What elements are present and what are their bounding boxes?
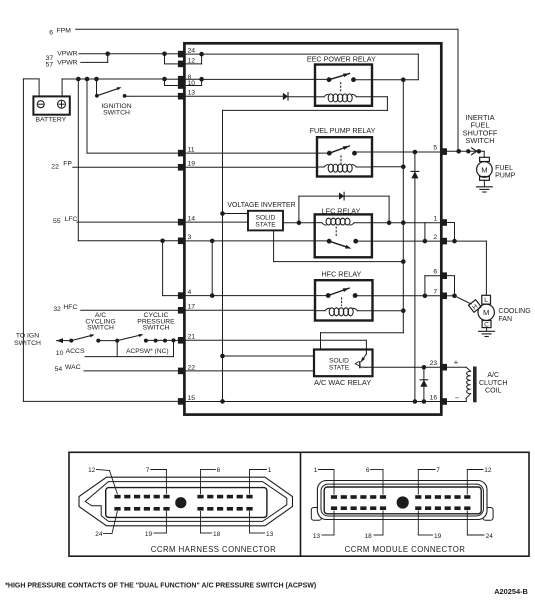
svg-text:1: 1 <box>314 467 318 474</box>
svg-text:M: M <box>481 165 487 174</box>
svg-text:4: 4 <box>188 289 192 296</box>
svg-text:HFC RELAY: HFC RELAY <box>321 270 361 279</box>
svg-text:M: M <box>483 308 489 317</box>
svg-text:−: − <box>455 393 460 402</box>
svg-text:VOLTAGE INVERTER: VOLTAGE INVERTER <box>227 202 295 209</box>
svg-text:23: 23 <box>430 360 438 367</box>
svg-text:VPWR: VPWR <box>57 59 77 66</box>
svg-text:ACPSW* (NC): ACPSW* (NC) <box>126 348 169 355</box>
svg-text:11: 11 <box>188 147 195 154</box>
svg-text:18: 18 <box>365 533 373 540</box>
svg-text:SWITCH: SWITCH <box>143 325 170 332</box>
svg-text:FPM: FPM <box>57 28 72 35</box>
svg-text:A/C WAC RELAY: A/C WAC RELAY <box>314 378 371 387</box>
svg-text:55: 55 <box>53 218 61 225</box>
svg-text:SWITCH: SWITCH <box>14 340 41 347</box>
svg-text:14: 14 <box>188 216 196 223</box>
svg-text:22: 22 <box>188 364 196 371</box>
svg-text:BATTERY: BATTERY <box>35 117 66 124</box>
svg-text:12: 12 <box>484 467 492 474</box>
svg-text:17: 17 <box>188 304 196 311</box>
svg-text:FUEL PUMP RELAY: FUEL PUMP RELAY <box>310 126 376 135</box>
svg-text:3: 3 <box>188 234 192 241</box>
svg-text:A20254-B: A20254-B <box>494 587 528 596</box>
svg-text:6: 6 <box>217 467 221 474</box>
svg-text:24: 24 <box>486 533 494 540</box>
svg-text:18: 18 <box>213 531 221 538</box>
svg-text:54: 54 <box>55 366 63 373</box>
svg-text:COOLING: COOLING <box>498 308 530 315</box>
svg-text:6: 6 <box>433 269 437 276</box>
svg-text:A/C: A/C <box>487 372 499 379</box>
svg-text:5: 5 <box>433 144 437 151</box>
svg-text:1: 1 <box>433 215 437 222</box>
svg-text:CCRM HARNESS CONNECTOR: CCRM HARNESS CONNECTOR <box>151 545 276 554</box>
svg-text:WAC: WAC <box>65 364 81 371</box>
svg-text:SOLID: SOLID <box>329 358 349 365</box>
svg-text:EEC POWER RELAY: EEC POWER RELAY <box>307 55 376 64</box>
svg-text:STATE: STATE <box>255 222 276 229</box>
svg-text:6: 6 <box>366 467 370 474</box>
svg-text:13: 13 <box>313 533 321 540</box>
svg-text:24: 24 <box>188 48 196 55</box>
svg-text:STATE: STATE <box>329 365 350 372</box>
svg-text:SWITCH: SWITCH <box>87 325 114 332</box>
svg-text:19: 19 <box>145 531 153 538</box>
svg-text:21: 21 <box>188 334 196 341</box>
svg-text:10: 10 <box>188 80 196 87</box>
svg-text:CCRM MODULE CONNECTOR: CCRM MODULE CONNECTOR <box>345 545 466 554</box>
svg-text:32: 32 <box>53 306 61 313</box>
svg-text:24: 24 <box>95 531 103 538</box>
svg-text:TO IGN: TO IGN <box>16 333 39 340</box>
svg-text:1: 1 <box>268 467 272 474</box>
svg-text:10: 10 <box>56 350 64 357</box>
svg-text:SWITCH: SWITCH <box>103 110 130 117</box>
svg-text:12: 12 <box>88 467 96 474</box>
svg-text:L: L <box>484 297 488 304</box>
svg-text:SWITCH: SWITCH <box>465 136 494 145</box>
svg-text:LFC: LFC <box>65 216 78 223</box>
svg-text:19: 19 <box>434 533 442 540</box>
svg-text:*HIGH PRESSURE CONTACTS OF THE: *HIGH PRESSURE CONTACTS OF THE "DUAL FUN… <box>5 582 316 589</box>
svg-text:19: 19 <box>188 161 196 168</box>
svg-text:7: 7 <box>436 467 440 474</box>
svg-text:6: 6 <box>49 30 53 37</box>
svg-text:16: 16 <box>430 394 438 401</box>
svg-text:ACCS: ACCS <box>66 348 85 355</box>
svg-text:2: 2 <box>433 234 437 241</box>
svg-text:57: 57 <box>46 62 54 69</box>
svg-text:7: 7 <box>433 289 437 296</box>
svg-text:VPWR: VPWR <box>57 50 77 57</box>
svg-text:13: 13 <box>188 90 196 97</box>
svg-text:FAN: FAN <box>498 316 512 323</box>
svg-text:CLUTCH: CLUTCH <box>479 380 507 387</box>
svg-text:FUEL: FUEL <box>495 165 513 172</box>
svg-text:HFC: HFC <box>63 304 77 311</box>
svg-text:+: + <box>454 358 459 367</box>
svg-text:7: 7 <box>146 467 150 474</box>
svg-text:FP: FP <box>63 161 72 168</box>
svg-text:22: 22 <box>51 163 59 170</box>
svg-text:PUMP: PUMP <box>495 173 516 180</box>
svg-text:12: 12 <box>188 57 196 64</box>
svg-text:15: 15 <box>188 395 196 402</box>
svg-text:COIL: COIL <box>485 387 501 394</box>
svg-text:13: 13 <box>266 531 274 538</box>
